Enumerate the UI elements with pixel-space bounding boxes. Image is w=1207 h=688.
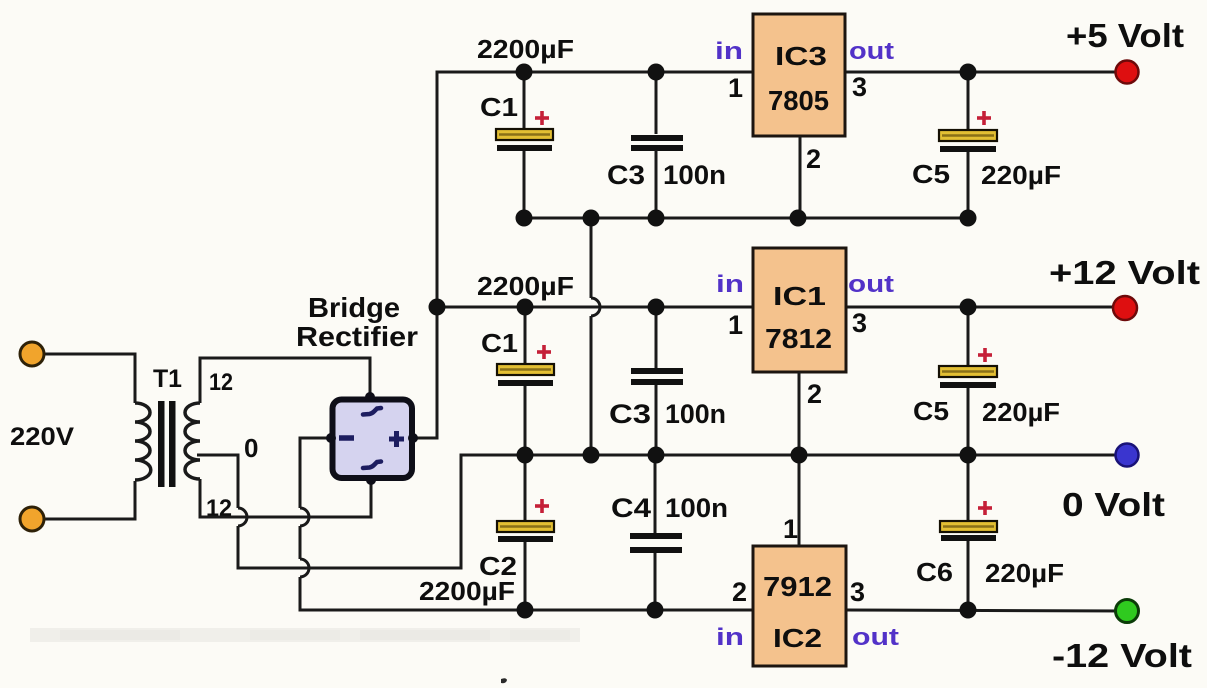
wire minus mid segment [299,526,302,559]
wire bridge minus down [300,438,331,508]
node C2 -12 rail [517,602,534,619]
svg-text:out: out [848,271,894,298]
IC3 7805 regulator [753,14,845,136]
wire secondary top to bridge [200,358,370,403]
terminal 0V [1116,444,1139,467]
svg-text:+12 Volt: +12 Volt [1049,254,1200,291]
capacitor C1 top section [523,72,526,129]
svg-text:100n: 100n [665,399,726,429]
capacitor C3 mid section [655,307,658,368]
svg-text:1: 1 [783,514,798,544]
capacitor C4 [654,455,657,533]
svg-text:3: 3 [850,577,865,607]
node C5 top rail [960,64,977,81]
svg-text:220µF: 220µF [981,160,1061,190]
pin 1 IC2 wire [798,455,801,546]
svg-text:7812: 7812 [765,323,832,354]
bridge terminal nub right [408,433,418,443]
wire hop gnd over +12 rail [591,298,600,316]
node C3 top rail [648,64,665,81]
wire bridge plus to V4 [413,72,524,438]
svg-text:C4: C4 [611,493,651,523]
wire hop tap over H1 [238,508,247,526]
svg-text:7912: 7912 [763,571,832,602]
capacitor C5 mid section [967,307,970,366]
svg-text:C5: C5 [912,159,950,189]
svg-text:100n: 100n [665,493,728,523]
top ground rail [520,217,968,220]
svg-text:out: out [852,624,899,651]
plus mark C6 [978,501,992,515]
node C1 0V rail [517,447,534,464]
wire gnd1 to 0V rail [590,218,593,298]
IC2 7912 regulator [753,546,846,666]
node V5 0V rail [583,447,600,464]
node C6 -12 rail [960,602,977,619]
node C1 gnd1 [516,210,533,227]
svg-text:out: out [849,38,894,65]
node V5 gnd1 [583,210,600,227]
comma artifact [501,678,507,683]
node C4 -12 rail [647,602,664,619]
plus mark C1 top [535,111,549,125]
+12 rail [437,306,753,309]
svg-text:C3: C3 [609,399,651,429]
node V4 x +12 rail [429,299,446,316]
plus mark C2 [535,499,549,513]
wire tap to H2 [238,455,470,568]
svg-text:-12 Volt: -12 Volt [1052,637,1192,674]
svg-text:100n: 100n [663,160,726,190]
svg-text:C3: C3 [607,160,645,190]
svg-text:in: in [715,38,743,65]
capacitor C6 [967,455,970,521]
bridge ac tilde top [363,408,381,415]
terminal J1 220V top [20,342,44,366]
svg-text:C1: C1 [481,328,518,358]
plus mark C5 mid [978,348,992,362]
node C3 +12 rail [648,299,665,316]
svg-text:2200µF: 2200µF [477,271,574,301]
bridge terminal nub top [365,392,375,402]
svg-text:0: 0 [244,433,258,463]
bridge rectifier body [333,400,413,479]
svg-text:7805: 7805 [768,85,829,116]
node C3 0V rail [648,447,665,464]
wire primary bottom [40,481,135,519]
-12V rail [300,609,753,612]
node C1 +12 rail [517,299,534,316]
svg-text:2: 2 [732,577,747,607]
top +5V rail [437,71,753,74]
node C5 0V rail [960,447,977,464]
svg-text:2: 2 [807,379,822,409]
plus mark C1 mid [537,345,551,359]
svg-text:Bridge: Bridge [308,292,400,323]
bridge plus sign [389,437,404,442]
svg-text:3: 3 [852,72,867,102]
svg-text:IC2: IC2 [773,623,822,653]
terminal -12V [1116,600,1139,623]
0V rail [461,454,1127,457]
pin 2 IC1 wire [798,372,801,455]
node C5 gnd1 [960,210,977,227]
node C5 +12 rail [960,299,977,316]
wire hop minus over H1 [300,508,309,526]
svg-text:T1: T1 [153,365,182,393]
svg-text:C5: C5 [913,396,949,426]
svg-text:C1: C1 [480,92,518,122]
svg-text:220µF: 220µF [985,558,1064,588]
bridge terminal nub left [326,433,336,443]
wire hop minus over H2 [300,559,309,577]
svg-text:2200µF: 2200µF [419,576,515,606]
node pin2 IC1 0V rail [791,447,808,464]
terminal +12V [1113,296,1137,320]
svg-text:12: 12 [209,369,233,396]
capacitor C2 [524,455,527,521]
capacitor C1 mid section [524,307,527,364]
node C1 top rail [516,64,533,81]
svg-text:0 Volt: 0 Volt [1062,486,1165,523]
wire minus to -12 rail [300,577,525,610]
svg-text:in: in [716,271,744,298]
svg-text:220V: 220V [10,423,74,451]
smudge artifact band [30,628,580,642]
bridge terminal nub bottom [366,475,376,485]
capacitor C3 top section [655,72,658,134]
svg-text:IC3: IC3 [775,41,827,71]
svg-text:1: 1 [728,310,743,340]
IC1 7812 regulator [753,248,846,372]
svg-text:Rectifier: Rectifier [296,321,418,352]
terminal J2 220V bottom [20,507,44,531]
svg-text:2: 2 [806,144,821,174]
wire secondary bottom H1 [200,479,371,517]
transformer T1 secondary winding [185,403,200,479]
wire center tap down [197,455,238,508]
svg-text:C6: C6 [916,557,953,587]
svg-text:220µF: 220µF [982,397,1060,427]
wire primary top [40,354,135,403]
pin 2 IC3 wire [799,136,802,218]
svg-text:1: 1 [728,73,743,103]
transformer T1 primary winding [135,403,151,480]
plus mark C5 top [977,111,991,125]
svg-text:2200µF: 2200µF [477,34,574,64]
svg-text:+5 Volt: +5 Volt [1066,17,1184,54]
bridge minus sign [339,435,354,441]
svg-text:IC1: IC1 [773,281,826,311]
node pin2 IC3 gnd1 [790,210,807,227]
bridge ac tilde bottom [363,462,381,469]
transformer T1 core [158,401,165,487]
terminal +5V [1116,61,1139,84]
svg-text:3: 3 [852,308,867,338]
capacitor C5 top section [967,72,970,130]
svg-text:in: in [716,624,744,651]
node C3 gnd1 [648,210,665,227]
